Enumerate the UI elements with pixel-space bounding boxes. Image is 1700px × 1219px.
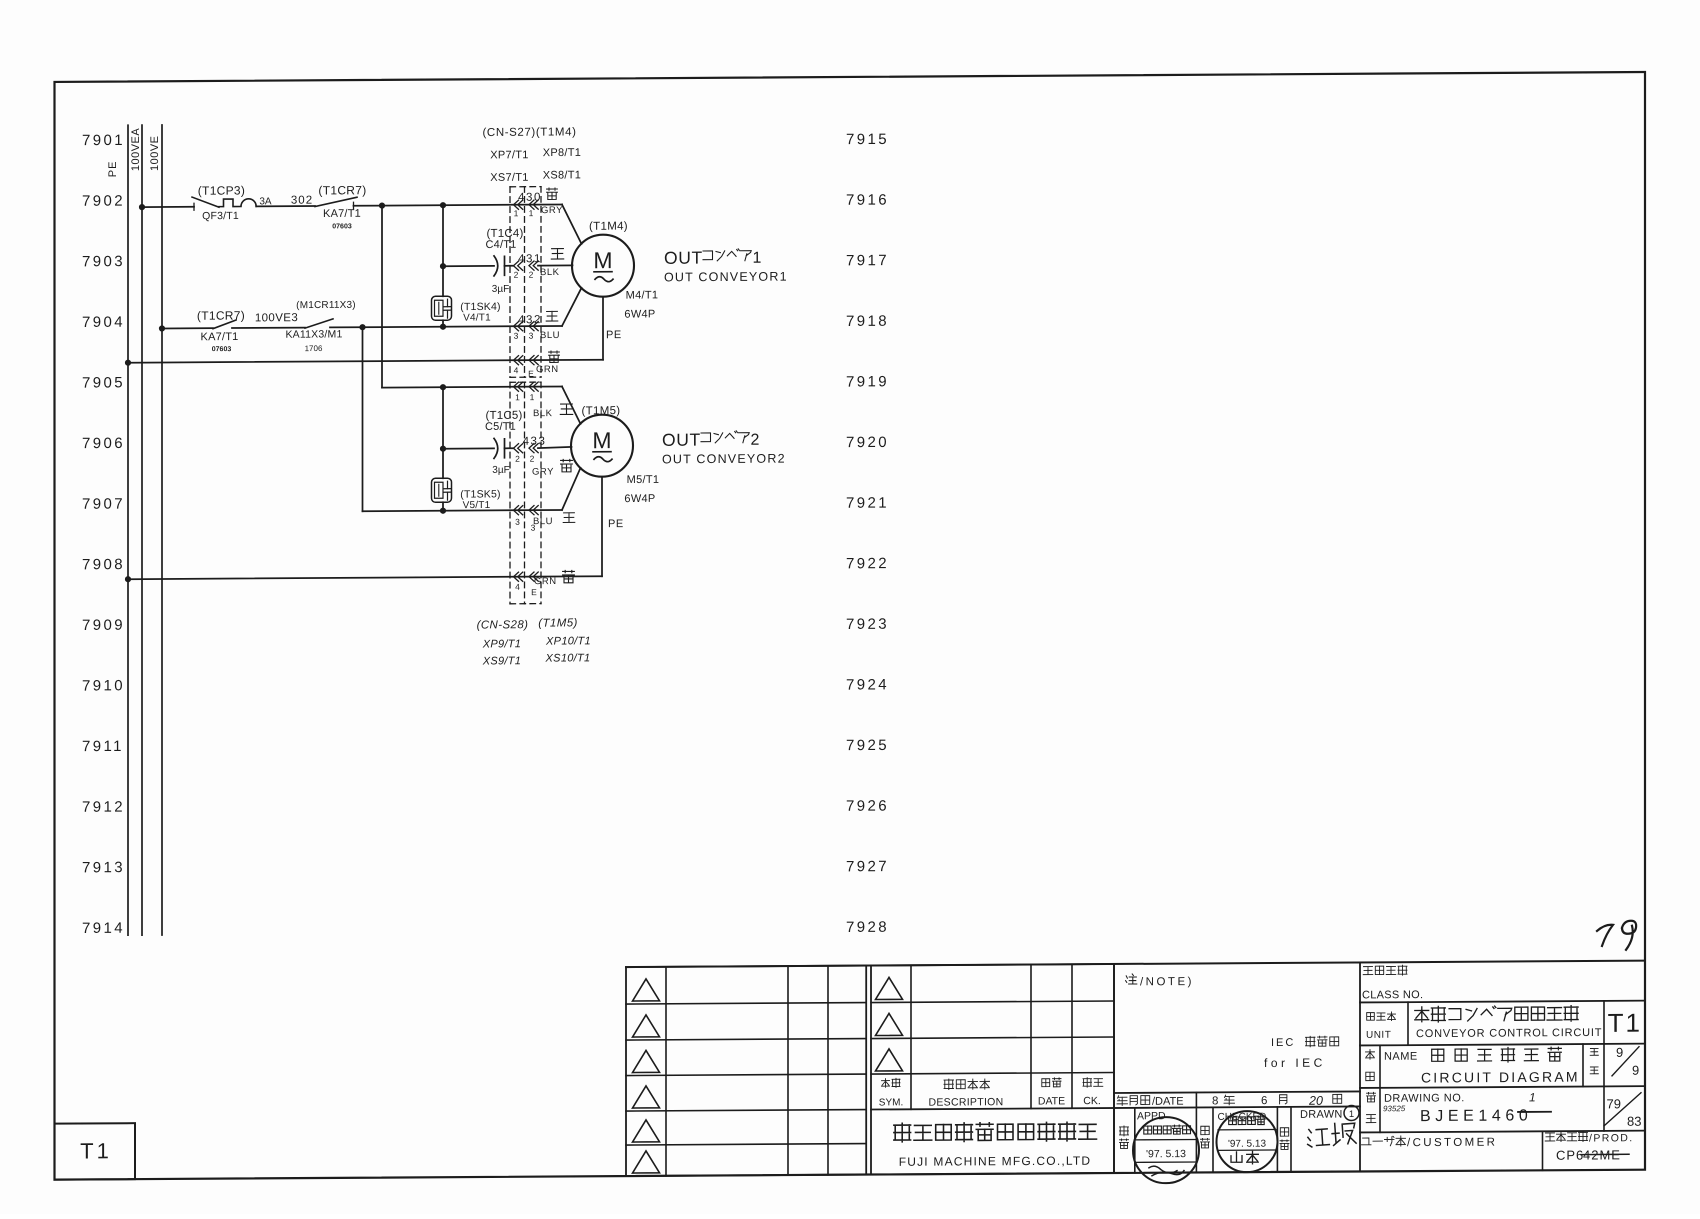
svg-text:1: 1 — [529, 208, 534, 218]
color label GRN / green kanji motor2 earth wire — [534, 570, 574, 587]
svg-text:4: 4 — [514, 365, 519, 375]
svg-text:79: 79 — [1607, 1096, 1621, 1111]
junction node 7904 / surge killer SK4 bottom — [440, 324, 446, 330]
svg-text:E: E — [528, 369, 534, 379]
svg-text:2: 2 — [529, 270, 534, 280]
svg-text:7926: 7926 — [846, 798, 889, 815]
svg-text:2: 2 — [515, 454, 520, 464]
svg-text:7902: 7902 — [82, 193, 125, 210]
revision table left — [626, 966, 866, 1177]
svg-text:1706: 1706 — [305, 344, 323, 353]
wire motor2 top (BLK) line 7919 — [382, 386, 562, 387]
svg-text:7901: 7901 — [82, 132, 125, 149]
svg-text:432: 432 — [518, 314, 542, 326]
motor M4/T1 (T1M4) 6W4P single-phase AC motor OUT CONVEYOR1 — [572, 220, 658, 321]
svg-text:1: 1 — [1529, 1090, 1536, 1104]
relay contact KA7/T1 (T1CR7) on line 7904 — [197, 308, 245, 353]
svg-text:(T1CR7): (T1CR7) — [318, 183, 366, 197]
svg-text:6: 6 — [1261, 1095, 1267, 1107]
svg-text:431: 431 — [518, 253, 542, 265]
svg-text:433: 433 — [523, 436, 547, 448]
color label GRN / green kanji for motor1 earth wire — [536, 351, 559, 375]
svg-text:XS9/T1: XS9/T1 — [482, 655, 521, 667]
wire motor2 bottom (BLU) line 7921 — [363, 510, 563, 511]
svg-text:6W4P: 6W4P — [624, 308, 655, 320]
svg-text:7904: 7904 — [82, 314, 125, 331]
svg-text:UNIT: UNIT — [1366, 1030, 1391, 1041]
svg-text:M: M — [593, 247, 612, 273]
drawn signature Esaka (handwritten) — [1306, 1122, 1356, 1147]
svg-text:(T1M4): (T1M4) — [589, 221, 628, 233]
svg-text:3µF: 3µF — [492, 284, 509, 295]
connector CN-S28 / T1M5 dashed boundary (XP9/XS9 XP10/XS10) — [510, 382, 541, 604]
svg-text:7924: 7924 — [846, 676, 889, 693]
junction on 100VE rail line 7904 — [159, 325, 165, 331]
svg-text:(T1SK5): (T1SK5) — [460, 488, 500, 500]
color label GRY / gray kanji for wire 430 — [541, 188, 563, 216]
wire PE/GRN motor1 from PE rail through connector pins 4-E — [125, 355, 603, 381]
junction node capacitor C5 tap — [440, 446, 446, 452]
svg-text:KA7/T1: KA7/T1 — [201, 331, 239, 343]
svg-text:/NOTE): /NOTE) — [1140, 976, 1194, 988]
net 100VE rail (vertical bus) — [149, 125, 162, 935]
svg-text:7917: 7917 — [846, 252, 889, 269]
wire 302 between QF3 and KA7 contact — [256, 205, 315, 207]
svg-text:07603: 07603 — [212, 346, 232, 353]
svg-text:PE: PE — [606, 329, 622, 341]
svg-text:T1: T1 — [80, 1138, 112, 1163]
customer / production no cells — [1362, 1131, 1634, 1164]
color label BLU / blue kanji motor2 bottom wire — [533, 513, 575, 527]
svg-text:OUT: OUT — [664, 248, 703, 268]
wire PE/GRN motor2 from PE rail through connector pins 4-E — [125, 572, 602, 600]
wire motor2 top connector contacts (pins 1-1) — [514, 382, 539, 402]
wire motor2 bottom diagonal into motor2 — [562, 468, 581, 510]
svg-text:100VE3: 100VE3 — [255, 312, 298, 324]
junction node motor2 bottom / SK5 — [440, 508, 446, 514]
wire motor2 bottom connector contacts (pins 3-3) BLU — [514, 506, 539, 533]
svg-text:/DATE: /DATE — [1152, 1096, 1184, 1108]
capacitor C5/T1 (T1C5) 3uF on wire 433 — [443, 410, 522, 476]
svg-text:20: 20 — [1308, 1094, 1323, 1108]
svg-text:BLU: BLU — [533, 516, 553, 527]
svg-text:7927: 7927 — [846, 858, 889, 875]
junction node line 7902 / capacitor branch C4 — [440, 202, 446, 208]
capacitor C4/T1 (T1C4) 3uF on wire 431 — [443, 228, 523, 296]
revision mark triangles right table — [876, 977, 903, 1071]
relay contact KA7/T1 (T1CR7) on line 7902 — [315, 183, 367, 230]
svg-text:DRAWN: DRAWN — [1300, 1109, 1343, 1121]
svg-text:CONVEYOR CONTROL CIRCUIT: CONVEYOR CONTROL CIRCUIT — [1416, 1027, 1602, 1040]
svg-text:3: 3 — [514, 331, 519, 341]
label IEC compliant / for IEC — [1264, 1036, 1339, 1070]
svg-text:NAME: NAME — [1384, 1051, 1418, 1063]
svg-text:83: 83 — [1627, 1114, 1641, 1129]
svg-text:CLASS NO.: CLASS NO. — [1362, 989, 1423, 1001]
svg-text:7916: 7916 — [846, 192, 889, 209]
svg-text:XP9/T1: XP9/T1 — [482, 638, 521, 650]
wire vertical feed x=382 from line 7902 to motor2 top wire — [381, 206, 383, 388]
svg-text:XP10/T1: XP10/T1 — [545, 635, 591, 647]
label OUT conveyor 1 (katakana) — [664, 247, 788, 284]
svg-text:100VEA: 100VEA — [130, 128, 142, 172]
date row year month day / DATE — [1114, 1091, 1360, 1109]
svg-text:7905: 7905 — [82, 374, 125, 391]
junction on 100VEA rail line 7902 — [139, 204, 145, 210]
svg-text:GRY: GRY — [541, 205, 563, 216]
wire 7902 from 100VEA rail to breaker QF3 — [142, 206, 194, 208]
wire PE drop from motor1 frame — [602, 297, 604, 360]
svg-text:T1: T1 — [1608, 1008, 1642, 1038]
class no cell — [1362, 965, 1423, 1001]
wire PE drop from motor2 frame — [601, 477, 603, 577]
svg-text:OUT CONVEYOR2: OUT CONVEYOR2 — [662, 452, 786, 467]
svg-text:V4/T1: V4/T1 — [463, 312, 491, 323]
revision table right — [871, 962, 1360, 1174]
wire vertical branch x=443 motor1 (C4 / SK4 chain) — [442, 205, 444, 296]
svg-text:DESCRIPTION: DESCRIPTION — [928, 1096, 1003, 1108]
wire 430 diagonal into motor1 — [562, 204, 582, 244]
svg-text:CP6: CP6 — [1556, 1148, 1584, 1163]
svg-text:QF3/T1: QF3/T1 — [202, 210, 239, 222]
svg-text:XS7/T1: XS7/T1 — [490, 172, 528, 184]
svg-text:1: 1 — [753, 250, 762, 267]
junction node capacitor C4 tap — [440, 263, 446, 269]
drawing no cell BJEE1460 — [1366, 1090, 1641, 1131]
svg-text:FUJI MACHINE MFG.CO.,LTD: FUJI MACHINE MFG.CO.,LTD — [899, 1154, 1092, 1169]
net 100VEA rail (vertical bus) — [130, 125, 142, 935]
svg-text:KA7/T1: KA7/T1 — [323, 208, 361, 220]
svg-text:(T1SK4): (T1SK4) — [460, 301, 500, 313]
title block grid — [626, 961, 1645, 1176]
wire 432 diagonal into motor1 — [562, 288, 582, 326]
svg-text:100VE: 100VE — [149, 135, 161, 171]
wire 430 connector contacts (pins 1-1) GRY — [514, 192, 542, 219]
name cell: electric circuit diagram — [1366, 1045, 1640, 1086]
svg-text:C4/T1: C4/T1 — [486, 239, 517, 251]
svg-text:1: 1 — [1349, 1109, 1354, 1120]
sheet number box T1 bottom-left — [55, 1123, 136, 1180]
svg-text:KA11X3/M1: KA11X3/M1 — [285, 328, 342, 340]
svg-text:7914: 7914 — [82, 920, 125, 937]
svg-text:6W4P: 6W4P — [624, 493, 655, 505]
svg-text:1: 1 — [514, 208, 519, 218]
wire 431 into motor1 — [538, 264, 573, 266]
line numbers 7901-7914 (left ladder rail numbering) — [82, 132, 125, 937]
svg-text:CK.: CK. — [1083, 1095, 1101, 1107]
svg-text:C5/T1: C5/T1 — [485, 421, 516, 433]
svg-text:1: 1 — [530, 392, 535, 402]
label OUT conveyor 2 (katakana) — [662, 429, 786, 466]
wire 7904 to connector pin 3 (wire 432) — [330, 326, 562, 327]
wire 431 connector contacts (pins 2-2) BLK — [514, 253, 542, 280]
svg-text:GRN: GRN — [536, 364, 559, 375]
svg-text:7920: 7920 — [846, 434, 889, 451]
wire 433 connector contacts (pins 2-2) GRY — [514, 436, 547, 464]
svg-text:7918: 7918 — [846, 313, 889, 330]
svg-text:1: 1 — [515, 392, 520, 402]
relay contact KA11X3/M1 (M1CR11X3) on line 7904 — [285, 300, 355, 353]
wire motor2 top diagonal into motor2 — [562, 386, 581, 424]
svg-text:7925: 7925 — [846, 737, 889, 754]
svg-text:(T1CR7): (T1CR7) — [197, 308, 245, 322]
svg-text:OUT: OUT — [662, 430, 701, 450]
company box FUJI MACHINE MFG.CO.,LTD — [894, 1122, 1097, 1169]
svg-text:430: 430 — [518, 192, 542, 204]
svg-text:XS10/T1: XS10/T1 — [545, 652, 591, 664]
svg-text:7921: 7921 — [846, 495, 889, 512]
color label BLK / black kanji for wire 431 — [540, 249, 564, 279]
svg-text:7906: 7906 — [82, 435, 125, 452]
svg-text:4: 4 — [515, 582, 520, 592]
approval stamp 1 (97.5.13) — [1133, 1117, 1199, 1183]
svg-text:7919: 7919 — [846, 373, 889, 390]
svg-text:CIRCUIT DIAGRAM: CIRCUIT DIAGRAM — [1421, 1069, 1580, 1086]
motor M5/T1 (T1M5) 6W4P single-phase AC motor OUT CONVEYOR2 — [571, 405, 659, 506]
svg-text:3µF: 3µF — [492, 465, 509, 476]
svg-text:9: 9 — [1632, 1063, 1639, 1078]
note label — [1126, 974, 1194, 989]
wire 433 into motor2 — [538, 447, 572, 448]
svg-text:/CUSTOMER: /CUSTOMER — [1407, 1137, 1497, 1150]
svg-text:7909: 7909 — [82, 617, 125, 634]
wire 100VE3 between contacts — [232, 327, 305, 329]
wire 7902 contact to connector pin 1 (wire 430) — [354, 204, 563, 205]
svg-text:M4/T1: M4/T1 — [626, 289, 659, 301]
color label BLU / blue kanji for wire 432 — [540, 311, 560, 341]
wire 7904 from 100VE rail — [162, 327, 213, 329]
circuit breaker QF3/T1 (T1CP3) 3A — [192, 183, 272, 222]
svg-text:SYM.: SYM. — [879, 1097, 903, 1108]
wire vertical feed x=362.5 from line 7904 to motor2 bottom wire — [362, 327, 364, 511]
surge killer V5/T1 (T1SK5) — [432, 478, 501, 511]
svg-text:302: 302 — [291, 195, 313, 207]
svg-text:07603: 07603 — [332, 223, 352, 230]
handwritten page number 79 top-right of title strip — [1597, 921, 1636, 950]
svg-text:7912: 7912 — [82, 799, 125, 816]
svg-text:(CN-S27)(T1M4): (CN-S27)(T1M4) — [482, 126, 576, 139]
svg-text:9: 9 — [1616, 1045, 1623, 1060]
svg-text:(T1M5): (T1M5) — [538, 617, 577, 629]
approval stamp 2 (97.5.13 Yamamoto) — [1217, 1111, 1278, 1172]
svg-text:GRY: GRY — [532, 467, 554, 478]
svg-text:(T1M5): (T1M5) — [582, 405, 621, 417]
svg-text:BLU: BLU — [540, 330, 560, 341]
junction node motor2 top / C5 branch — [440, 384, 446, 390]
svg-text:'97. 5.13: '97. 5.13 — [1146, 1148, 1186, 1160]
svg-text:2: 2 — [751, 432, 760, 449]
svg-text:for IEC: for IEC — [1264, 1056, 1326, 1070]
svg-text:7903: 7903 — [82, 253, 125, 270]
svg-text:7922: 7922 — [846, 555, 889, 572]
junction node 7904 / vertical feed to motor2 lower phase — [359, 324, 365, 330]
svg-text:(CN-S28): (CN-S28) — [477, 619, 529, 631]
svg-text:XP7/T1: XP7/T1 — [490, 149, 528, 161]
svg-text:PE: PE — [608, 518, 624, 530]
svg-text:DATE: DATE — [1038, 1095, 1065, 1107]
color label GRY / gray kanji for wire 433 — [532, 459, 572, 477]
wire vertical branch x=443 motor2 (C5 / SK5 chain) — [442, 387, 444, 478]
svg-text:93525: 93525 — [1383, 1104, 1406, 1113]
wire 432 connector contacts (pins 3-3) BLU — [514, 314, 542, 341]
svg-text:2: 2 — [514, 270, 519, 280]
svg-text:7913: 7913 — [82, 859, 125, 876]
surge killer V4/T1 (T1SK4) — [432, 296, 501, 324]
svg-text:GRN: GRN — [534, 576, 557, 587]
svg-text:7908: 7908 — [82, 556, 125, 573]
svg-text:(M1CR11X3): (M1CR11X3) — [296, 300, 356, 311]
svg-text:7928: 7928 — [846, 919, 889, 936]
svg-text:7915: 7915 — [846, 131, 889, 148]
svg-text:3: 3 — [515, 517, 520, 527]
svg-text:BJEE1460: BJEE1460 — [1420, 1107, 1532, 1125]
svg-text:7907: 7907 — [82, 496, 125, 513]
junction node line 7902 / vertical feed to motor2 — [379, 202, 385, 208]
line numbers 7915-7928 (right ladder rail numbering) — [846, 131, 889, 936]
color label BLK / black kanji motor2 top wire — [533, 404, 573, 419]
connector CN-S27 / T1M4 dashed boundary (XP7/XS7 XP8/XS8) — [510, 187, 541, 378]
svg-text:7911: 7911 — [82, 738, 124, 755]
svg-text:OUT CONVEYOR1: OUT CONVEYOR1 — [664, 270, 788, 285]
net PE rail (vertical bus) — [107, 125, 128, 935]
svg-text:E: E — [531, 587, 537, 597]
svg-text:V5/T1: V5/T1 — [463, 500, 491, 511]
svg-text:/PROD.: /PROD. — [1589, 1132, 1634, 1144]
revision table header SYM / DESCRIPTION / DATE / CK — [879, 1077, 1103, 1109]
svg-text:M5/T1: M5/T1 — [627, 474, 660, 486]
svg-text:IEC: IEC — [1271, 1037, 1295, 1049]
svg-text:BLK: BLK — [533, 408, 553, 419]
unit cell: board conveyor control circuit — [1366, 1005, 1602, 1040]
revision mark triangles left table — [633, 979, 660, 1173]
approval cells APPD / CHECKED / DRAWN — [1120, 1105, 1360, 1173]
svg-text:7923: 7923 — [846, 616, 889, 633]
svg-text:DRAWING NO.: DRAWING NO. — [1384, 1092, 1465, 1105]
svg-text:3: 3 — [529, 331, 534, 341]
svg-text:PE: PE — [107, 161, 119, 178]
svg-text:8: 8 — [1212, 1095, 1218, 1107]
svg-text:2: 2 — [530, 454, 535, 464]
svg-text:(T1CP3): (T1CP3) — [198, 183, 245, 197]
svg-text:XS8/T1: XS8/T1 — [543, 169, 581, 181]
svg-text:'97. 5.13: '97. 5.13 — [1228, 1139, 1266, 1150]
svg-text:M: M — [592, 427, 611, 453]
svg-text:BLK: BLK — [540, 267, 560, 278]
svg-text:XP8/T1: XP8/T1 — [543, 147, 581, 159]
svg-text:7910: 7910 — [82, 677, 125, 694]
